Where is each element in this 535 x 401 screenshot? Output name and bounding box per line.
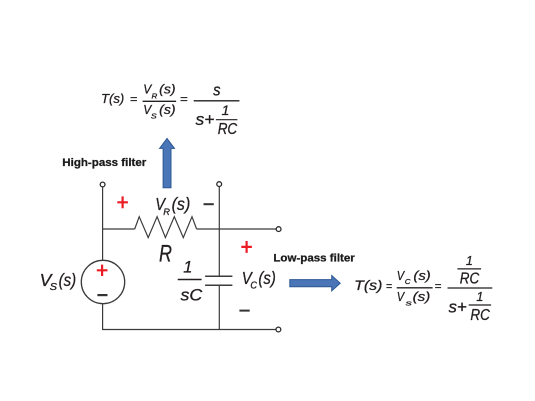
wire: mid vertical upper (to capacitor) bbox=[218, 186, 220, 275]
arrow up (to high-pass formula) bbox=[160, 138, 175, 187]
svg-text:=: = bbox=[435, 279, 442, 293]
svg-text:s: s bbox=[406, 298, 413, 307]
low-pass formula: denominator inner bar bbox=[469, 304, 491, 306]
low-pass formula: denominator VS(s) bbox=[397, 289, 431, 307]
svg-text:T(s): T(s) bbox=[354, 278, 382, 293]
svg-text:(s): (s) bbox=[59, 270, 77, 290]
svg-text:(s): (s) bbox=[413, 268, 430, 283]
low-pass formula: numerator inner bar bbox=[457, 268, 481, 270]
high-pass formula: main fraction bar bbox=[194, 100, 240, 102]
svg-text:s+: s+ bbox=[196, 110, 215, 129]
high-pass formula: numerator VR(s) bbox=[143, 82, 175, 101]
svg-text:RC: RC bbox=[470, 307, 490, 324]
svg-text:RC: RC bbox=[460, 271, 480, 288]
svg-text:1: 1 bbox=[183, 259, 192, 277]
high-pass formula: inner fraction bar bbox=[216, 119, 238, 121]
svg-text:sC: sC bbox=[181, 287, 203, 305]
svg-text:V: V bbox=[397, 289, 406, 304]
svg-text:1: 1 bbox=[476, 290, 483, 304]
svg-text:S: S bbox=[151, 112, 157, 121]
terminal: top mid bbox=[217, 182, 222, 187]
svg-text:(s): (s) bbox=[258, 268, 275, 288]
- polarity label of VC bbox=[239, 310, 249, 312]
wire: below source bbox=[102, 304, 104, 330]
svg-text:s: s bbox=[213, 81, 221, 100]
svg-text:(s): (s) bbox=[413, 289, 431, 304]
resistor R zigzag bbox=[135, 217, 197, 238]
svg-text:C: C bbox=[405, 277, 411, 286]
low-pass formula: numerator VC(s) bbox=[397, 268, 431, 286]
svg-text:s+: s+ bbox=[449, 297, 467, 316]
arrow right (to low-pass formula) bbox=[290, 276, 340, 291]
high-pass transfer function: T(s) = bbox=[101, 91, 138, 106]
svg-text:R: R bbox=[163, 207, 170, 218]
high-pass formula: denominator VS(s) bbox=[143, 102, 175, 121]
svg-text:RC: RC bbox=[218, 121, 238, 138]
wire: top left segment bbox=[102, 228, 135, 230]
- polarity label of VR bbox=[204, 203, 214, 205]
low-pass formula: fraction bar VC/VS bbox=[397, 287, 433, 289]
svg-text:S: S bbox=[50, 282, 58, 293]
svg-text:=: = bbox=[180, 94, 188, 106]
svg-text:=: = bbox=[386, 279, 392, 293]
svg-text:(s): (s) bbox=[172, 194, 191, 214]
wire: mid vertical lower (capacitor to bottom) bbox=[218, 286, 220, 330]
+ polarity of VS bbox=[97, 265, 108, 276]
+ polarity label of VC (red) bbox=[241, 241, 252, 253]
voltage source VS bbox=[81, 260, 124, 303]
svg-text:(s): (s) bbox=[159, 82, 175, 97]
svg-text:1: 1 bbox=[466, 254, 473, 268]
svg-text:High-pass filter: High-pass filter bbox=[62, 157, 147, 169]
wire: resistor to right terminal bbox=[197, 228, 277, 230]
terminal: mid right output bbox=[276, 227, 281, 232]
low-pass transfer function: T(s) = bbox=[354, 278, 392, 293]
wire: left vertical (top terminal to source) bbox=[102, 187, 104, 261]
svg-text:=: = bbox=[130, 94, 138, 106]
+ polarity label of VR (red) bbox=[117, 196, 128, 208]
svg-text:1: 1 bbox=[221, 103, 229, 119]
terminal: top left bbox=[100, 182, 105, 187]
label VS(s) bbox=[40, 270, 76, 293]
svg-text:C: C bbox=[250, 281, 257, 292]
- polarity of VS bbox=[97, 294, 107, 296]
svg-text:R: R bbox=[159, 241, 172, 268]
label 1/sC: fraction bar bbox=[178, 279, 202, 281]
label VC(s) bbox=[242, 268, 276, 292]
label VR(s) bbox=[155, 194, 190, 218]
capacitor C bottom plate bbox=[205, 284, 232, 286]
svg-text:T(s): T(s) bbox=[101, 91, 124, 106]
terminal: bottom right bbox=[276, 327, 281, 332]
low-pass formula: main fraction bar bbox=[448, 287, 493, 289]
capacitor C top plate bbox=[205, 275, 232, 277]
svg-text:Low-pass filter: Low-pass filter bbox=[273, 253, 355, 265]
wire: bottom horizontal bbox=[102, 329, 276, 331]
svg-text:(s): (s) bbox=[159, 102, 175, 117]
svg-text:R: R bbox=[152, 91, 158, 100]
high-pass formula: fraction bar VR/VS bbox=[143, 100, 177, 102]
